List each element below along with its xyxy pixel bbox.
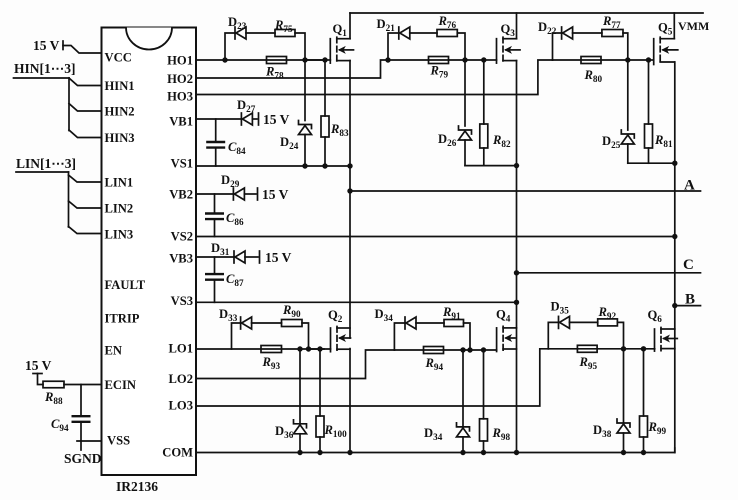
wire VS2: [196, 236, 675, 238]
svg-text:VS2: VS2: [171, 230, 193, 244]
svg-text:VB2: VB2: [169, 188, 193, 202]
wire VB2: [196, 193, 233, 195]
supply 15V tick at D27: [258, 113, 260, 125]
wire R76 down: [457, 33, 465, 60]
node R77 rejoin: [625, 57, 630, 62]
zener D36 gate clamp: [299, 349, 301, 424]
node HO1 branch junction: [222, 57, 227, 62]
wire R77 down: [623, 33, 628, 60]
svg-text:LIN[1⋯3]: LIN[1⋯3]: [16, 156, 76, 171]
node COM junctions phase1: [297, 450, 302, 455]
resistor R79: [429, 57, 449, 64]
wire D34 branch up: [394, 323, 405, 350]
svg-text:HO1: HO1: [167, 54, 193, 68]
wire D21 branch up: [388, 33, 399, 60]
resistor R98 gate: [483, 350, 485, 419]
diode D31 bootstrap: [234, 251, 245, 263]
diode D22: [562, 27, 573, 39]
wire VSS: [77, 440, 102, 442]
wire COM: [196, 448, 675, 453]
svg-text:LO2: LO2: [169, 372, 194, 386]
svg-text:HIN3: HIN3: [105, 131, 135, 145]
diode D34: [405, 317, 416, 329]
wire VS1: [196, 165, 350, 167]
capacitor C84: [215, 119, 217, 142]
diode D23: [235, 27, 246, 39]
wire Q1 source down phase1 node: [349, 61, 351, 338]
wire D34 to R91: [416, 322, 444, 324]
IC U1 IR2136 body: [102, 28, 197, 476]
wire R95 row: [548, 348, 623, 350]
resistor R76: [437, 30, 457, 37]
wire VS3: [196, 301, 517, 303]
resistor R99 gate: [643, 349, 645, 416]
resistor R93: [261, 346, 282, 353]
capacitor C87: [214, 257, 216, 274]
wire R88 to ECIN: [64, 384, 102, 386]
wire HO2 with jog: [196, 60, 388, 78]
wire LO3 with jog: [196, 349, 548, 406]
resistor R77: [602, 30, 623, 37]
wire R91 down to LO2: [464, 323, 471, 350]
resistor R80: [581, 57, 601, 64]
wire R80 row: [553, 59, 628, 61]
zener D34 lower gate clamp: [462, 350, 464, 427]
resistor R82 gate: [483, 60, 485, 124]
wire LO2 with jog: [196, 350, 394, 379]
svg-text:ECIN: ECIN: [105, 378, 137, 392]
wire HIN2 branch: [69, 104, 102, 112]
zener D26 gate clamp: [464, 60, 466, 126]
wire HO3 with jog: [196, 60, 553, 95]
svg-text:LIN2: LIN2: [105, 202, 134, 216]
wire LO1: [196, 348, 324, 350]
bus HIN underline: [14, 77, 70, 79]
svg-text:LIN1: LIN1: [105, 176, 134, 190]
zener D38 gate clamp: [623, 349, 625, 423]
capacitor C94: [80, 385, 82, 417]
svg-text:LO1: LO1: [169, 342, 194, 356]
wire Q3 drain to rail: [516, 13, 518, 39]
wire R75 down to HO1: [295, 33, 305, 60]
svg-text:HO3: HO3: [167, 90, 193, 104]
wire to gate Q2: [309, 348, 331, 350]
wire VB3: [196, 256, 234, 258]
resistor R88: [43, 381, 64, 388]
svg-text:VSS: VSS: [107, 434, 130, 448]
node A output line: [350, 190, 701, 192]
wire R94 row: [394, 349, 470, 351]
wire D35 to R92: [570, 321, 598, 323]
resistor R94: [424, 347, 444, 354]
wire VB1: [196, 118, 241, 120]
svg-text:C: C: [683, 257, 694, 273]
node gate Q4 junctions: [460, 347, 465, 352]
resistor R83 gate: [324, 60, 326, 116]
svg-text:IR2136: IR2136: [116, 479, 158, 494]
wire to gate Q5: [628, 59, 649, 61]
ground SGND stub: [80, 441, 82, 450]
wire D26 R82 bottoms to phase2: [465, 165, 517, 167]
node HO2 branch junction: [385, 57, 390, 62]
svg-text:VB1: VB1: [169, 115, 193, 129]
resistor R100 gate: [319, 349, 321, 416]
resistor R92: [598, 319, 618, 326]
svg-text:LIN3: LIN3: [105, 228, 134, 242]
svg-text:VCC: VCC: [105, 51, 132, 65]
wire R90 down to LO1: [302, 323, 309, 349]
svg-text:15 V: 15 V: [265, 250, 292, 265]
zener D24 gate clamp: [304, 60, 306, 121]
node gate Q2 junctions: [297, 346, 302, 351]
resistor R91: [444, 320, 464, 327]
supply 15V tick at D31: [259, 251, 261, 263]
transistor Q1: [330, 37, 353, 63]
wire to gate Q4: [470, 349, 497, 351]
wire HO1 to gate Q1: [305, 59, 324, 61]
bus HIN vertical: [68, 78, 70, 131]
wire HO1: [196, 59, 324, 61]
wire HIN1 branch: [69, 78, 102, 86]
supply 15V tick at D29: [257, 188, 259, 200]
wire D25 R81 bottoms to phase3: [628, 162, 675, 164]
wire R79 row: [388, 59, 465, 61]
node COM junctions phase3: [621, 450, 626, 455]
wire Q3 source down phase2 node: [516, 61, 518, 453]
node R75 rejoin: [302, 57, 307, 62]
node B output line: [675, 305, 701, 307]
wire to gate Q6: [624, 348, 655, 350]
wire Q5 source down phase3 node: [674, 62, 676, 453]
diode D35: [559, 316, 570, 328]
wire to gate Q3: [465, 59, 484, 61]
svg-text:VB3: VB3: [169, 252, 193, 266]
wire HIN3 branch: [69, 130, 102, 138]
svg-text:VMM: VMM: [678, 19, 709, 33]
svg-text:VS3: VS3: [171, 294, 193, 308]
transistor Q5: [654, 37, 678, 64]
wire D22 branch up: [553, 33, 562, 60]
resistor R78: [267, 57, 287, 64]
wire Q1 drain to rail: [349, 13, 351, 39]
wire LIN3 branch: [69, 227, 102, 234]
wire R92 down to LO3: [617, 322, 623, 348]
svg-text:EN: EN: [105, 344, 123, 358]
transistor Q6: [655, 328, 678, 352]
wire 15V tick to R88: [33, 374, 43, 385]
svg-text:HIN[1⋯3]: HIN[1⋯3]: [14, 61, 76, 76]
wire LIN1 branch: [69, 175, 102, 182]
svg-text:VS1: VS1: [171, 157, 193, 171]
node VS1 junctions: [302, 163, 307, 168]
svg-text:15 V: 15 V: [262, 187, 289, 202]
wire LIN2 branch: [69, 201, 102, 208]
transistor Q4: [497, 326, 517, 351]
wire Q5 drain to rail: [673, 13, 675, 39]
wire D23 branch up: [225, 33, 235, 60]
bus LIN vertical: [68, 172, 70, 227]
wire 15V to VCC: [63, 41, 102, 53]
diode D33: [241, 317, 252, 329]
svg-text:15 V: 15 V: [25, 358, 52, 373]
svg-text:COM: COM: [162, 446, 193, 460]
resistor R81 gate: [648, 60, 650, 124]
transistor Q3: [497, 37, 521, 63]
node gate Q6 junctions: [621, 346, 626, 351]
svg-text:HIN1: HIN1: [105, 79, 135, 93]
diode D27 bootstrap: [241, 113, 252, 125]
wire phase1 to Q2 region: [349, 349, 351, 453]
transistor Q2: [331, 327, 351, 352]
svg-text:15 V: 15 V: [263, 112, 290, 127]
wire D35 branch up: [548, 322, 558, 348]
bus LIN underline: [16, 171, 69, 173]
capacitor C86: [214, 194, 216, 214]
svg-text:B: B: [685, 292, 695, 308]
wire D22 to R77: [573, 32, 602, 34]
diode D21: [399, 27, 410, 39]
zener D25 gate clamp: [627, 60, 629, 130]
resistor R95: [577, 345, 597, 352]
resistor R75: [275, 30, 295, 37]
svg-text:FAULT: FAULT: [105, 278, 146, 292]
wire D21 to R76: [410, 32, 437, 34]
wire D23 to R75: [246, 32, 275, 34]
svg-text:LO3: LO3: [169, 399, 194, 413]
svg-text:A: A: [684, 178, 695, 194]
wire D33 to R90: [252, 322, 282, 324]
svg-text:15 V: 15 V: [33, 38, 60, 53]
power rail VMM: [350, 12, 703, 14]
node C output line: [517, 272, 701, 274]
svg-text:HO2: HO2: [167, 72, 193, 86]
svg-text:SGND: SGND: [64, 451, 102, 466]
node COM junctions phase2: [460, 450, 465, 455]
wire D33 branch up: [232, 323, 241, 349]
svg-text:HIN2: HIN2: [105, 105, 135, 119]
diode D29 bootstrap: [233, 188, 244, 200]
resistor R90: [282, 320, 303, 327]
svg-text:ITRIP: ITRIP: [105, 312, 140, 326]
node R76 rejoin: [462, 57, 467, 62]
